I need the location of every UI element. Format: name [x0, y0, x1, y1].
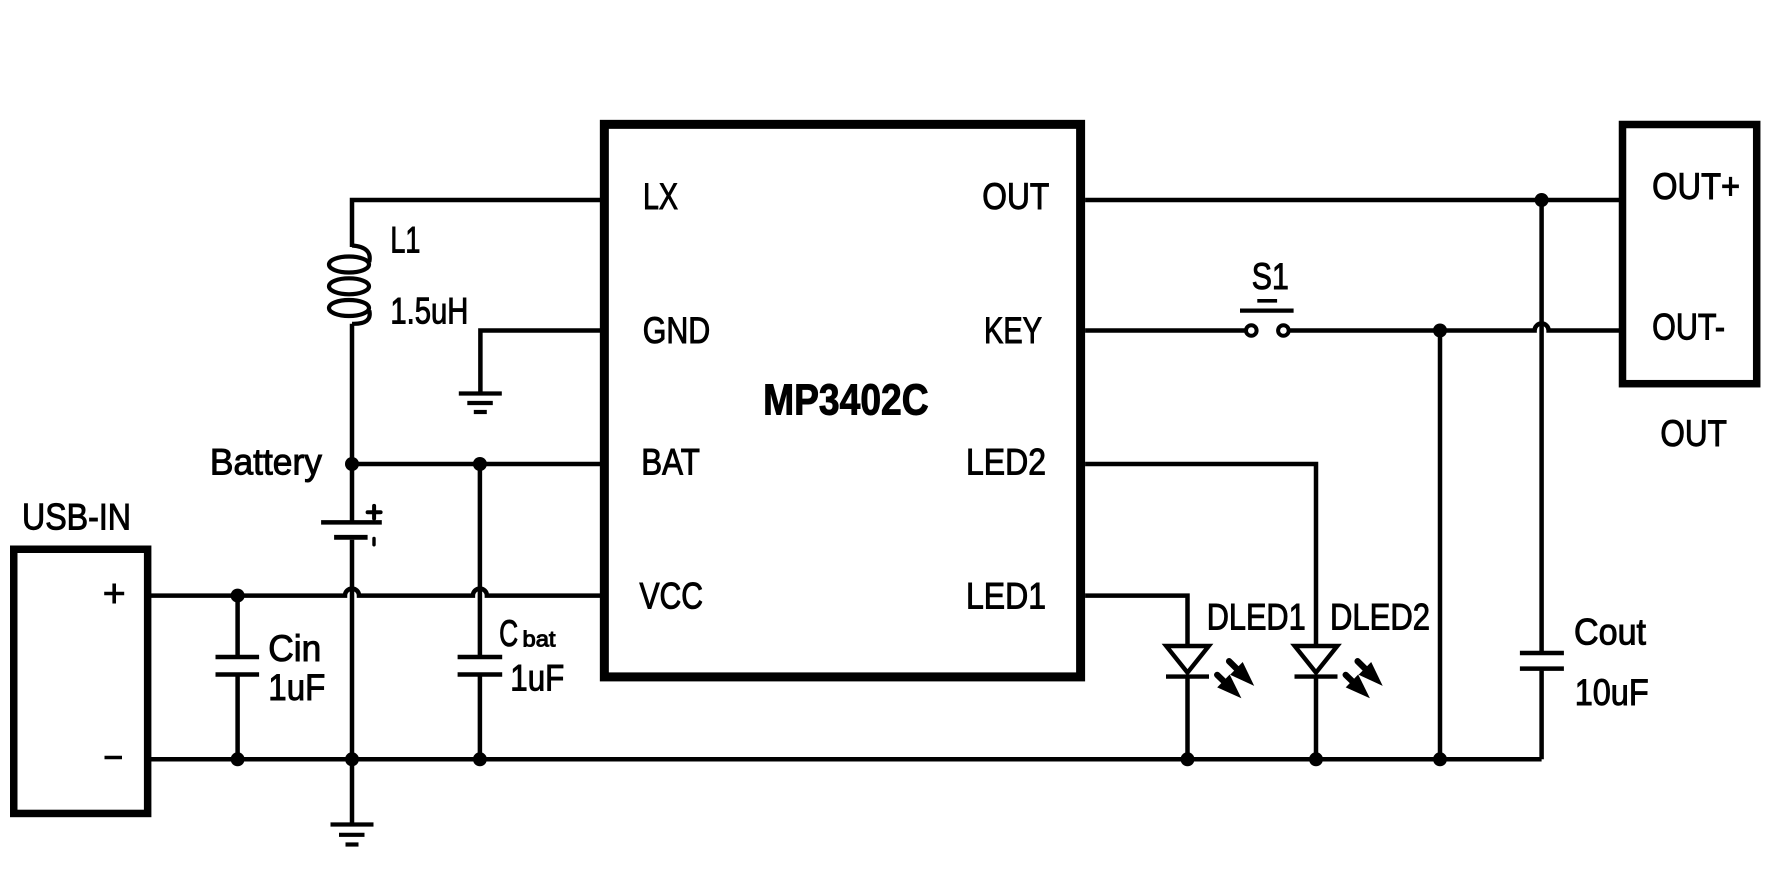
junction node DLED2/minus rail	[1309, 752, 1323, 766]
svg-text:L1: L1	[390, 220, 420, 261]
junction node KEY-return/minus rail	[1433, 752, 1447, 766]
battery negative short plate	[334, 535, 368, 540]
capacitor Cbat bottom lead	[478, 677, 483, 760]
junction node KEY-return column	[1433, 324, 1447, 338]
svg-text:OUT+: OUT+	[1652, 166, 1740, 207]
capacitor Cin bottom plate	[216, 672, 260, 677]
capacitor Cout top lead from OUT net	[1539, 200, 1544, 651]
svg-text:Cout: Cout	[1574, 612, 1647, 653]
battery ground stem	[350, 759, 355, 822]
svg-text:C: C	[499, 613, 518, 654]
wire KEY-return column down to minus rail	[1438, 331, 1443, 760]
svg-text:BAT: BAT	[641, 441, 700, 482]
ground symbol at GND pin	[459, 391, 502, 395]
svg-text:OUT-: OUT-	[1652, 307, 1725, 348]
LED DLED2 cathode lead to minus rail	[1314, 677, 1319, 760]
capacitor Cbat bottom plate	[458, 672, 503, 677]
junction node battery/BAT	[345, 457, 359, 471]
svg-text:Cin: Cin	[268, 628, 321, 669]
junction node Cbat/minus rail	[473, 752, 487, 766]
capacitor Cin bottom lead	[235, 677, 240, 760]
inductor L1 coil	[329, 246, 370, 324]
capacitor Cin top plate	[216, 655, 260, 660]
svg-text:1.5uH: 1.5uH	[390, 290, 468, 331]
LED DLED2 emission arrow 2	[1346, 675, 1354, 683]
svg-text:S1: S1	[1252, 256, 1289, 297]
svg-text:10uF: 10uF	[1575, 672, 1649, 713]
wire LED1 pin to DLED1	[1085, 596, 1187, 646]
op-amp-style IC U1 MP3402C body	[604, 124, 1080, 677]
LED DLED2 diode triangle	[1295, 646, 1338, 673]
battery cell positive plate lead	[350, 464, 355, 521]
switch S1 button cap	[1257, 299, 1277, 303]
junction node battery/minus rail	[345, 752, 359, 766]
battery positive long plate	[321, 520, 382, 525]
svg-text:LX: LX	[643, 176, 678, 217]
svg-text:KEY: KEY	[984, 310, 1042, 351]
svg-text:DLED1: DLED1	[1207, 597, 1306, 638]
battery plus polarity mark	[368, 510, 381, 514]
capacitor Cout bottom lead to minus rail	[1539, 671, 1544, 760]
svg-text:DLED2: DLED2	[1330, 597, 1430, 638]
junction node Cin/VCC	[231, 589, 245, 603]
svg-text:LED2: LED2	[966, 441, 1046, 482]
wire LX pin to inductor top (net LX)	[352, 200, 604, 247]
wire USB+ to VCC pin (with hops over battery and Cbat columns)	[148, 589, 605, 596]
capacitor Cbat top plate	[458, 655, 503, 660]
junction node Cbat/BAT	[473, 457, 487, 471]
svg-text:USB-IN: USB-IN	[22, 497, 131, 538]
wire LED2 pin to DLED2	[1085, 464, 1316, 646]
wire KEY pin to switch S1	[1085, 328, 1244, 333]
battery negative lead down to ground rail	[350, 540, 355, 760]
junction node DLED1/minus rail	[1181, 752, 1195, 766]
capacitor Cin top lead	[235, 596, 240, 655]
svg-text:OUT: OUT	[982, 176, 1049, 217]
LED DLED2 emission arrow 1	[1358, 661, 1367, 670]
svg-text:1uF: 1uF	[510, 658, 564, 699]
switch S1 actuator bar	[1240, 309, 1294, 313]
wire inductor bottom to BAT junction	[350, 324, 355, 464]
svg-text:VCC: VCC	[640, 576, 704, 617]
LED DLED2 cathode bar	[1295, 674, 1338, 678]
USB-IN minus terminal mark	[105, 756, 123, 760]
junction node Cin/minus rail	[231, 752, 245, 766]
svg-text:bat: bat	[523, 627, 556, 652]
svg-text:Battery: Battery	[210, 441, 322, 482]
svg-text:OUT: OUT	[1660, 413, 1727, 454]
LED DLED1 cathode lead to minus rail	[1185, 677, 1190, 760]
svg-text:GND: GND	[643, 310, 711, 351]
svg-text:1uF: 1uF	[268, 667, 325, 708]
switch S1 contact right	[1278, 325, 1289, 336]
USB-IN connector box	[14, 549, 148, 813]
capacitor Cout bottom plate	[1520, 666, 1564, 671]
svg-text:LED1: LED1	[966, 576, 1046, 617]
wire OUT pin to OUT+ terminal	[1085, 198, 1622, 203]
capacitor Cbat top lead	[478, 464, 483, 655]
svg-text:MP3402C: MP3402C	[763, 376, 929, 425]
ground/minus rail wire from USB- to Cout column	[148, 757, 1542, 762]
wire BAT net to IC	[352, 462, 604, 467]
LED DLED1 emission arrow 1	[1229, 661, 1238, 670]
wire switch S1 to OUT- terminal (hop over Cout column)	[1290, 324, 1622, 331]
LED DLED1 cathode bar	[1166, 674, 1209, 678]
wire GND pin to ground	[480, 331, 604, 392]
LED DLED1 emission arrow 2	[1217, 675, 1225, 683]
junction node Cout/OUT	[1535, 193, 1549, 207]
USB-IN plus terminal mark	[104, 592, 124, 596]
capacitor Cout top plate	[1520, 651, 1564, 656]
ground symbol under battery	[331, 822, 374, 826]
OUT connector box	[1623, 125, 1757, 384]
switch S1 contact left	[1246, 325, 1257, 336]
LED DLED1 diode triangle	[1166, 646, 1209, 673]
battery minus polarity mark	[372, 539, 375, 545]
